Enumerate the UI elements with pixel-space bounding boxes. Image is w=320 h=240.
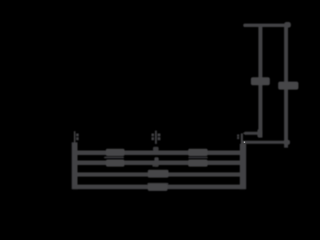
L2 mid chip lower-left widening bbox=[152, 165, 158, 167]
L1 right label below-bar bbox=[188, 157, 208, 159]
dimension line L3 bbox=[73, 172, 245, 176]
V2 bottom cap bbox=[242, 141, 290, 144]
middle extension tick bbox=[155, 131, 157, 144]
V1 bottom junction blob bbox=[257, 129, 262, 138]
L4 label chip bbox=[148, 184, 168, 191]
L2 right label chip bbox=[188, 160, 207, 167]
dimension line L2 bbox=[73, 161, 245, 166]
dimension line L4 bbox=[73, 185, 245, 190]
right end bracket bbox=[240, 144, 246, 189]
L3 label chip bbox=[148, 170, 169, 178]
left end bracket bbox=[72, 142, 78, 189]
middle bump above dimension line L1 bbox=[153, 147, 159, 151]
left tick label marks bbox=[76, 134, 79, 141]
L1 right label chip bbox=[188, 149, 207, 156]
top cap of vertical dimensions bbox=[243, 24, 290, 27]
L2 left label chip bbox=[106, 160, 124, 167]
top cap right end blob bbox=[284, 22, 291, 28]
vertical dimension line V1 bbox=[258, 25, 262, 138]
L2 mid small chip (vertical blob through line) bbox=[154, 157, 158, 166]
L1 left label chip bbox=[106, 149, 125, 156]
V1 label chip bbox=[251, 77, 270, 85]
dimension line L1 bbox=[73, 151, 245, 156]
V2 label chip bbox=[278, 82, 298, 90]
middle tick right label marks bbox=[158, 134, 161, 141]
V1 bottom cap left arrowhead bbox=[243, 132, 246, 136]
V2 bottom junction blob bbox=[284, 140, 290, 145]
L1 left label below-bar bbox=[104, 157, 124, 159]
middle tick left label marks bbox=[152, 134, 155, 141]
L4 label top bar bbox=[147, 183, 168, 185]
white speck on V2 bottom cap bbox=[244, 142, 245, 143]
left extension tick bbox=[74, 131, 76, 142]
vertical dimension line V2 bbox=[284, 25, 288, 148]
right extension tick bbox=[241, 133, 243, 144]
right tick label marks bbox=[237, 134, 239, 139]
V1 bottom cap bbox=[245, 132, 263, 135]
